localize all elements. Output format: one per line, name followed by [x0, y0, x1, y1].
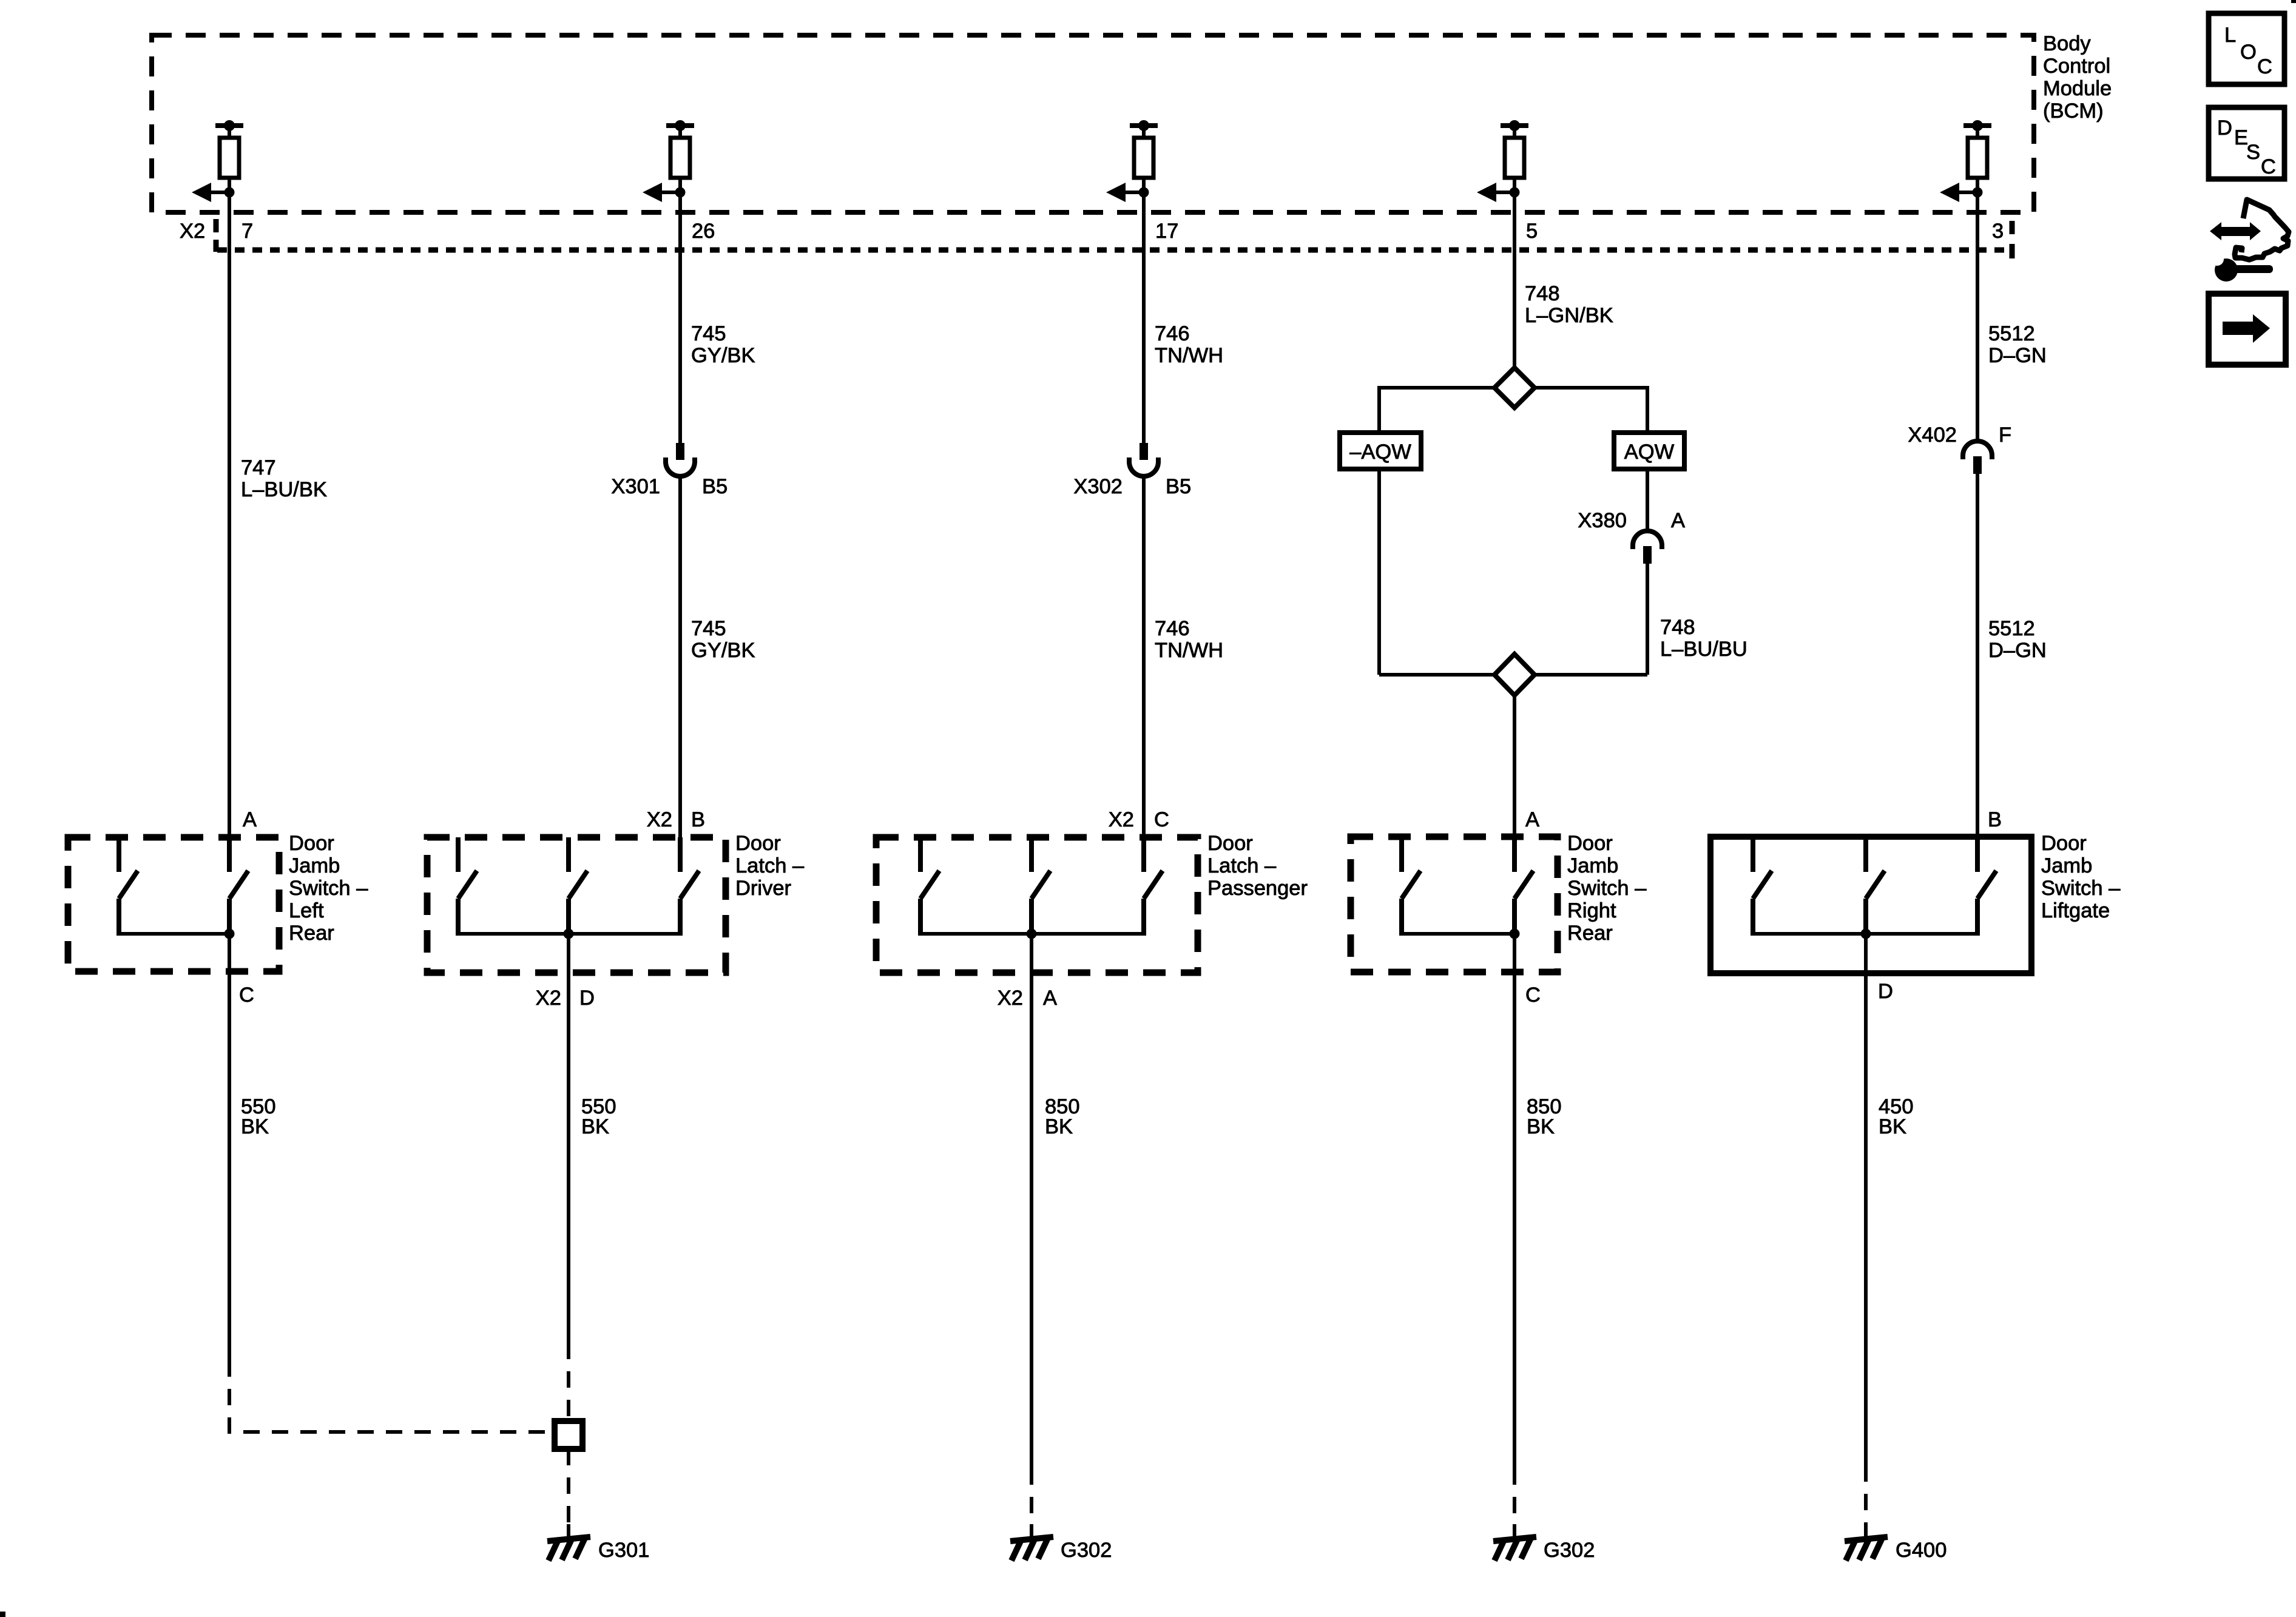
- svg-text:Passenger: Passenger: [1207, 877, 1308, 900]
- svg-text:5512: 5512: [1988, 322, 2035, 345]
- pin number 5: [1526, 220, 1538, 243]
- pin number 7: [241, 220, 253, 243]
- svg-text:BK: BK: [1045, 1115, 1073, 1138]
- svg-text:746: 746: [1155, 617, 1190, 640]
- svg-text:G400: G400: [1896, 1539, 1947, 1562]
- svg-text:L–BU/BU: L–BU/BU: [1660, 638, 1747, 661]
- switch common wire (liftgate): [1753, 929, 1977, 939]
- component label Door Latch - Passenger: [1207, 832, 1308, 900]
- label pin B5 of X302: [1166, 475, 1191, 498]
- dashed ground route from pin C to pass-through grommet: [229, 1360, 555, 1432]
- svg-text:Body: Body: [2043, 32, 2091, 55]
- svg-text:A: A: [1525, 808, 1539, 831]
- wire from resistor to pin 26: [678, 178, 682, 252]
- svg-text:A: A: [1671, 509, 1685, 532]
- svg-text:G302: G302: [1061, 1539, 1112, 1562]
- pin D label (driver latch): [579, 987, 595, 1010]
- label wire 748 L-BU/BU: [1660, 616, 1747, 661]
- wire 850 BK (passenger latch pin A): [1030, 934, 1033, 1468]
- wire 748 L-BU/BU (X380 to splice): [1646, 564, 1649, 675]
- svg-text:S: S: [2246, 141, 2260, 164]
- svg-text:Jamb: Jamb: [289, 854, 340, 877]
- LOC icon box: [2209, 13, 2284, 84]
- svg-text:Switch –: Switch –: [2041, 877, 2121, 900]
- connector X301 pin B5: [666, 443, 695, 476]
- resistor (BCM internal pull-up, pin 7): [215, 120, 243, 178]
- svg-text:Door: Door: [1207, 832, 1253, 855]
- switch contact 3 (driver latch): [680, 837, 699, 936]
- switch contact 1 (left rear jamb): [119, 837, 138, 936]
- svg-text:Switch –: Switch –: [1567, 877, 1647, 900]
- label X302: [1073, 475, 1123, 498]
- label X402: [1908, 424, 1957, 447]
- pass-through grommet: [555, 1421, 582, 1449]
- svg-text:Door: Door: [1567, 832, 1613, 855]
- svg-text:748: 748: [1660, 616, 1695, 639]
- wire 748 (splice to right rear jamb switch pin A): [1513, 695, 1516, 872]
- svg-text:GY/BK: GY/BK: [691, 639, 755, 662]
- svg-text:(BCM): (BCM): [2043, 100, 2104, 123]
- connector X302 pin B5: [1129, 443, 1158, 476]
- connector X2 strip (dotted bottom line): [217, 248, 2012, 253]
- page corner mark (bottom left): [0, 1612, 5, 1617]
- pin number 26: [692, 220, 715, 243]
- svg-text:A: A: [243, 808, 257, 831]
- resistor (BCM internal pull-up, pin 5): [1501, 120, 1528, 178]
- net tag -AQW: [1340, 433, 1421, 469]
- switch common wire (passenger latch): [920, 929, 1144, 939]
- svg-text:GY/BK: GY/BK: [691, 344, 755, 367]
- wire 550 BK (left rear jamb switch pin C): [228, 934, 231, 1360]
- pin C label (right rear jamb switch): [1525, 984, 1541, 1007]
- svg-text:C: C: [1154, 808, 1169, 831]
- ground G301: [547, 1524, 649, 1562]
- svg-text:D–GN: D–GN: [1988, 344, 2047, 367]
- switch contact 2 (driver latch): [569, 837, 587, 936]
- page corner mark (top right): [2291, 0, 2296, 3]
- svg-text:747: 747: [241, 456, 276, 479]
- signal arrow into BCM at pin 3: [1940, 183, 1983, 202]
- connector X380 pin A: [1633, 531, 1662, 564]
- Body Control Module (BCM) dashed box: [152, 35, 2034, 212]
- svg-text:5: 5: [1526, 220, 1538, 243]
- wire 745 GY/BK (X301 to driver door latch pin B): [678, 476, 682, 872]
- X2 strip left separator: [214, 219, 219, 252]
- svg-text:Module: Module: [2043, 77, 2112, 100]
- BCM name label: [2043, 32, 2112, 123]
- svg-text:X2: X2: [536, 987, 561, 1010]
- svg-text:–AQW: –AQW: [1349, 441, 1411, 464]
- pin A label (right rear jamb switch): [1525, 808, 1539, 831]
- label wire 850 BK (column 3): [1045, 1095, 1080, 1138]
- label wire 746 TN/WH (upper): [1155, 322, 1223, 367]
- pin B label (liftgate jamb switch): [1988, 808, 2002, 831]
- svg-text:BK: BK: [1879, 1115, 1906, 1138]
- door latch passenger box: [876, 837, 1198, 973]
- resistor (BCM internal pull-up, pin 26): [666, 120, 694, 178]
- svg-text:Right: Right: [1567, 899, 1616, 922]
- svg-text:X2: X2: [180, 220, 205, 243]
- label X380: [1578, 509, 1627, 532]
- label pin B5 of X301: [702, 475, 728, 498]
- switch common wire (right rear jamb): [1402, 929, 1520, 939]
- svg-text:BK: BK: [581, 1115, 609, 1138]
- dashed wire to ground G302: [1513, 1468, 1516, 1535]
- switch common wire (left rear jamb): [119, 929, 235, 939]
- component label Door Jamb Switch - Left Rear: [289, 832, 368, 945]
- ground G302 (right rear jamb switch): [1493, 1524, 1595, 1562]
- connector X402 pin F: [1963, 441, 1992, 474]
- switch common wire (driver latch): [458, 929, 680, 939]
- connector label X2 at passenger latch pin C: [1109, 808, 1134, 831]
- component label Door Jamb Switch - Right Rear: [1567, 832, 1647, 945]
- connector label X2: [180, 220, 205, 243]
- door latch driver box: [427, 837, 726, 973]
- wire branch left vertical: [1377, 469, 1381, 675]
- svg-text:745: 745: [691, 322, 726, 345]
- forward arrow icon box: [2209, 294, 2286, 365]
- svg-text:AQW: AQW: [1624, 441, 1675, 464]
- svg-text:745: 745: [691, 617, 726, 640]
- switch contact 3 (passenger latch): [1144, 837, 1163, 936]
- net tag AQW: [1614, 433, 1684, 469]
- svg-text:A: A: [1043, 987, 1057, 1010]
- svg-text:X302: X302: [1073, 475, 1123, 498]
- svg-text:Rear: Rear: [1567, 922, 1613, 945]
- wire branch bottom left: [1379, 673, 1494, 677]
- svg-text:748: 748: [1525, 282, 1560, 305]
- ground G302 (passenger latch): [1010, 1524, 1112, 1562]
- svg-text:Switch –: Switch –: [289, 877, 368, 900]
- X2 strip right separator: [2010, 221, 2015, 258]
- wire 850 BK (right rear jamb switch pin C): [1513, 934, 1516, 1468]
- svg-text:C: C: [2261, 155, 2276, 178]
- label pin A of X380: [1671, 509, 1685, 532]
- wire 450 BK (liftgate jamb switch pin D): [1864, 934, 1868, 1465]
- svg-text:17: 17: [1155, 220, 1178, 243]
- dashed wire to ground G302: [1030, 1468, 1033, 1535]
- label wire 550 BK (column 2): [581, 1095, 616, 1138]
- svg-text:C: C: [239, 984, 254, 1007]
- component label Door Latch - Driver: [735, 832, 805, 900]
- pin number 17: [1155, 220, 1178, 243]
- label wire 5512 D-GN (upper): [1988, 322, 2047, 367]
- wire branch bottom right: [1535, 673, 1647, 677]
- svg-text:D: D: [579, 987, 595, 1010]
- dashed wire to ground G400: [1864, 1465, 1868, 1535]
- label pin F of X402: [1999, 424, 2011, 447]
- dashed wire to grommet: [567, 1343, 570, 1421]
- wire branch top left: [1379, 388, 1494, 433]
- svg-text:Latch –: Latch –: [1207, 854, 1277, 877]
- svg-text:26: 26: [692, 220, 715, 243]
- label X301: [611, 475, 660, 498]
- wire 746 TN/WH (X302 to passenger door latch pin C): [1142, 476, 1146, 872]
- label wire 745 GY/BK (lower): [691, 617, 755, 662]
- svg-text:7: 7: [241, 220, 253, 243]
- svg-text:X2: X2: [1109, 808, 1134, 831]
- svg-text:Driver: Driver: [735, 877, 791, 900]
- svg-text:B: B: [1988, 808, 2002, 831]
- switch contact 2 (liftgate): [1866, 837, 1885, 936]
- wire 746 TN/WH (BCM pin 17 to X302): [1142, 252, 1146, 443]
- label wire 748 L-GN/BK: [1525, 282, 1613, 327]
- signal arrow into BCM at pin 26: [643, 183, 686, 202]
- switch contact 1 (right rear jamb): [1402, 837, 1420, 936]
- svg-text:Jamb: Jamb: [2041, 854, 2092, 877]
- DESC icon box: [2209, 107, 2284, 179]
- pin C label (passenger latch): [1154, 808, 1169, 831]
- svg-text:D–GN: D–GN: [1988, 639, 2047, 662]
- wire from resistor to pin 3: [1976, 178, 1979, 252]
- switch contact 3 (liftgate): [1977, 837, 1996, 936]
- wire branch right (AQW box to X380): [1646, 469, 1649, 531]
- svg-text:TN/WH: TN/WH: [1155, 344, 1223, 367]
- svg-text:Door: Door: [289, 832, 334, 855]
- door jamb switch liftgate box: [1710, 837, 2031, 973]
- svg-text:L–GN/BK: L–GN/BK: [1525, 304, 1613, 327]
- svg-text:B: B: [691, 808, 705, 831]
- wire branch top right: [1535, 388, 1647, 433]
- label wire 550 BK (column 1): [241, 1095, 276, 1138]
- resistor (BCM internal pull-up, pin 3): [1963, 120, 1991, 178]
- svg-text:X2: X2: [998, 987, 1023, 1010]
- connector label X2 at passenger latch pin A: [998, 987, 1023, 1010]
- wire 5512 D-GN (BCM pin 3 to X402): [1976, 252, 1979, 442]
- svg-text:X2: X2: [647, 808, 672, 831]
- connector label X2 at driver latch pin B: [647, 808, 672, 831]
- door jamb switch right rear box: [1351, 837, 1558, 972]
- wire 550 BK (driver latch pin D): [567, 934, 570, 1343]
- svg-text:G301: G301: [598, 1539, 649, 1562]
- pin B label (driver latch): [691, 808, 705, 831]
- dashed wire grommet to ground: [567, 1449, 570, 1535]
- svg-text:O: O: [2240, 41, 2257, 64]
- signal arrow into BCM at pin 5: [1477, 183, 1520, 202]
- signal arrow into BCM at pin 17: [1106, 183, 1149, 202]
- wire 747 L-BU/BK (BCM pin 7 to left rear jamb switch pin A): [228, 252, 231, 872]
- pin C label (left rear jamb switch): [239, 984, 254, 1007]
- wire 748 L-GN/BK (BCM pin 5 to splice): [1513, 252, 1516, 369]
- pin D label (liftgate jamb switch): [1878, 980, 1893, 1003]
- switch contact 2 (passenger latch): [1032, 837, 1050, 936]
- service information icon (double arrow, outline, wrench): [2199, 200, 2289, 282]
- switch contact 1 (passenger latch): [920, 837, 939, 936]
- label wire 747 L-BU/BK: [241, 456, 327, 501]
- svg-text:3: 3: [1992, 220, 2004, 243]
- svg-text:Door: Door: [2041, 832, 2087, 855]
- svg-text:C: C: [1525, 984, 1541, 1007]
- pin A label (passenger latch): [1043, 987, 1057, 1010]
- svg-text:TN/WH: TN/WH: [1155, 639, 1223, 662]
- svg-text:D: D: [1878, 980, 1893, 1003]
- svg-text:L–BU/BK: L–BU/BK: [241, 478, 327, 501]
- switch contact 2 (right rear jamb): [1514, 837, 1533, 936]
- splice (top diamond): [1494, 368, 1535, 408]
- wire from resistor to pin 17: [1142, 178, 1146, 252]
- splice (bottom diamond): [1494, 654, 1535, 695]
- wire from resistor to pin 7: [228, 178, 231, 252]
- svg-text:BK: BK: [1527, 1115, 1555, 1138]
- label wire 5512 D-GN (lower): [1988, 617, 2047, 662]
- svg-text:Liftgate: Liftgate: [2041, 899, 2110, 922]
- svg-text:5512: 5512: [1988, 617, 2035, 640]
- svg-text:Control: Control: [2043, 55, 2110, 78]
- svg-text:L: L: [2224, 24, 2236, 47]
- svg-text:X380: X380: [1578, 509, 1627, 532]
- svg-text:F: F: [1999, 424, 2011, 447]
- svg-text:Door: Door: [735, 832, 781, 855]
- svg-text:X402: X402: [1908, 424, 1957, 447]
- wire from resistor to pin 5: [1513, 178, 1516, 252]
- pin number 3: [1992, 220, 2004, 243]
- switch contact 1 (driver latch): [458, 837, 477, 936]
- connector label X2 at driver latch pin D: [536, 987, 561, 1010]
- svg-text:Rear: Rear: [289, 922, 334, 945]
- svg-text:B5: B5: [1166, 475, 1191, 498]
- door jamb switch left rear box: [68, 837, 279, 971]
- component label Door Jamb Switch - Liftgate: [2041, 832, 2121, 922]
- label wire 850 BK (column 4): [1527, 1095, 1562, 1138]
- resistor (BCM internal pull-up, pin 17): [1130, 120, 1158, 178]
- svg-text:BK: BK: [241, 1115, 269, 1138]
- svg-text:Left: Left: [289, 899, 324, 922]
- ground G400: [1845, 1524, 1947, 1562]
- svg-text:G302: G302: [1544, 1539, 1595, 1562]
- signal arrow into BCM at pin 7: [192, 183, 235, 202]
- svg-text:Jamb: Jamb: [1567, 854, 1618, 877]
- svg-text:C: C: [2257, 55, 2272, 78]
- wire 745 GY/BK (BCM pin 26 to X301): [678, 252, 682, 443]
- svg-text:D: D: [2217, 116, 2232, 140]
- pin A label (left rear jamb switch): [243, 808, 257, 831]
- svg-text:746: 746: [1155, 322, 1190, 345]
- switch contact 2 (left rear jamb): [229, 837, 248, 936]
- label wire 746 TN/WH (lower): [1155, 617, 1223, 662]
- svg-text:B5: B5: [702, 475, 728, 498]
- label wire 745 GY/BK (upper): [691, 322, 755, 367]
- wire 5512 D-GN (X402 to liftgate jamb switch pin B): [1976, 474, 1979, 872]
- svg-text:Latch –: Latch –: [735, 854, 805, 877]
- svg-text:X301: X301: [611, 475, 660, 498]
- label wire 450 BK (column 5): [1879, 1095, 1914, 1138]
- switch contact 1 (liftgate): [1753, 837, 1772, 936]
